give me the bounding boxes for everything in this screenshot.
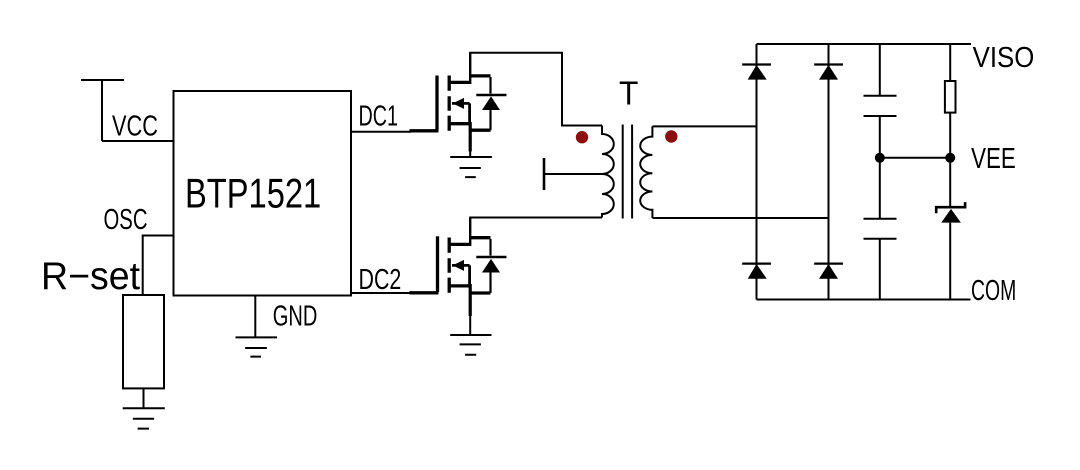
wire bridge leg 1 [756, 44, 758, 300]
diode D1 [742, 63, 771, 65]
wire R-set to ground [143, 388, 145, 408]
wire VCC to IC [102, 140, 174, 142]
wire secondary bottom to bridge [652, 217, 828, 219]
wire filter capacitor branch [879, 44, 881, 300]
transformer primary winding [602, 126, 614, 218]
transistor Q2 NMOS [410, 236, 491, 293]
diode D2 [814, 63, 843, 65]
wire VEE link [880, 157, 950, 159]
svg-text:GND: GND [273, 301, 318, 333]
VCC supply terminal [81, 80, 124, 141]
wire secondary top to bridge [652, 125, 756, 127]
zener diode Z1 [936, 202, 965, 213]
Q2 body link [452, 265, 470, 286]
svg-text:T: T [619, 75, 638, 112]
wire Q2 drain to transformer primary bottom [470, 218, 602, 219]
capacitor C1 [864, 96, 897, 116]
svg-text:DC2: DC2 [359, 264, 402, 296]
wire DC2 to Q2 gate [351, 292, 411, 294]
svg-text:R−set: R−set [41, 255, 140, 298]
Q2 body arrow [453, 260, 464, 271]
ground Q2 source [450, 335, 491, 355]
wire zener to COM [949, 223, 951, 300]
wire OSC pin [143, 236, 174, 296]
resistor R-set [123, 295, 164, 388]
Q2 drain pin [469, 218, 471, 247]
Q1 source pin [469, 122, 472, 152]
wire COM bottom rail [757, 299, 971, 301]
junction node at C-VEE [875, 153, 885, 163]
body diode of Q2 [489, 239, 491, 293]
transistor Q1 NMOS [410, 76, 491, 131]
svg-text:VISO: VISO [973, 42, 1035, 74]
wire Q1 drain to transformer primary top [470, 53, 602, 126]
resistor R1 [945, 81, 956, 113]
diode D4 [814, 263, 843, 265]
IC U1 BTP1521 box [174, 91, 352, 296]
Q1 body arrow [453, 98, 464, 109]
svg-text:VCC: VCC [112, 111, 158, 143]
wire GND pin [254, 296, 256, 338]
wire resistor to zener [949, 113, 951, 206]
polarity dot primary [576, 131, 588, 143]
svg-text:DC1: DC1 [359, 101, 399, 133]
ground IC GND [236, 337, 278, 356]
Q1 body link [452, 103, 470, 123]
wire center tap [544, 173, 602, 175]
diode D3 [742, 263, 771, 265]
junction node at R-VEE [945, 153, 955, 163]
wire VISO top rail [757, 43, 972, 45]
capacitor C2 [864, 219, 897, 239]
transformer secondary winding [640, 126, 652, 218]
wire resistor branch top [949, 44, 951, 81]
ground below R-set [123, 408, 165, 428]
svg-text:BTP1521: BTP1521 [185, 170, 321, 217]
Q2 source pin [469, 284, 472, 316]
svg-text:OSC: OSC [104, 204, 148, 236]
svg-text:VEE: VEE [971, 143, 1016, 175]
transformer core [623, 125, 632, 219]
wire bridge leg 2 [828, 44, 830, 300]
svg-text:COM: COM [971, 275, 1016, 307]
supply terminal at transformer center tap [543, 158, 546, 190]
polarity dot secondary [665, 130, 677, 142]
Q1 drain pin [469, 53, 471, 84]
body diode of Q1 [489, 77, 491, 130]
ground Q1 source [450, 157, 492, 177]
wire DC1 to Q1 gate [351, 131, 411, 133]
